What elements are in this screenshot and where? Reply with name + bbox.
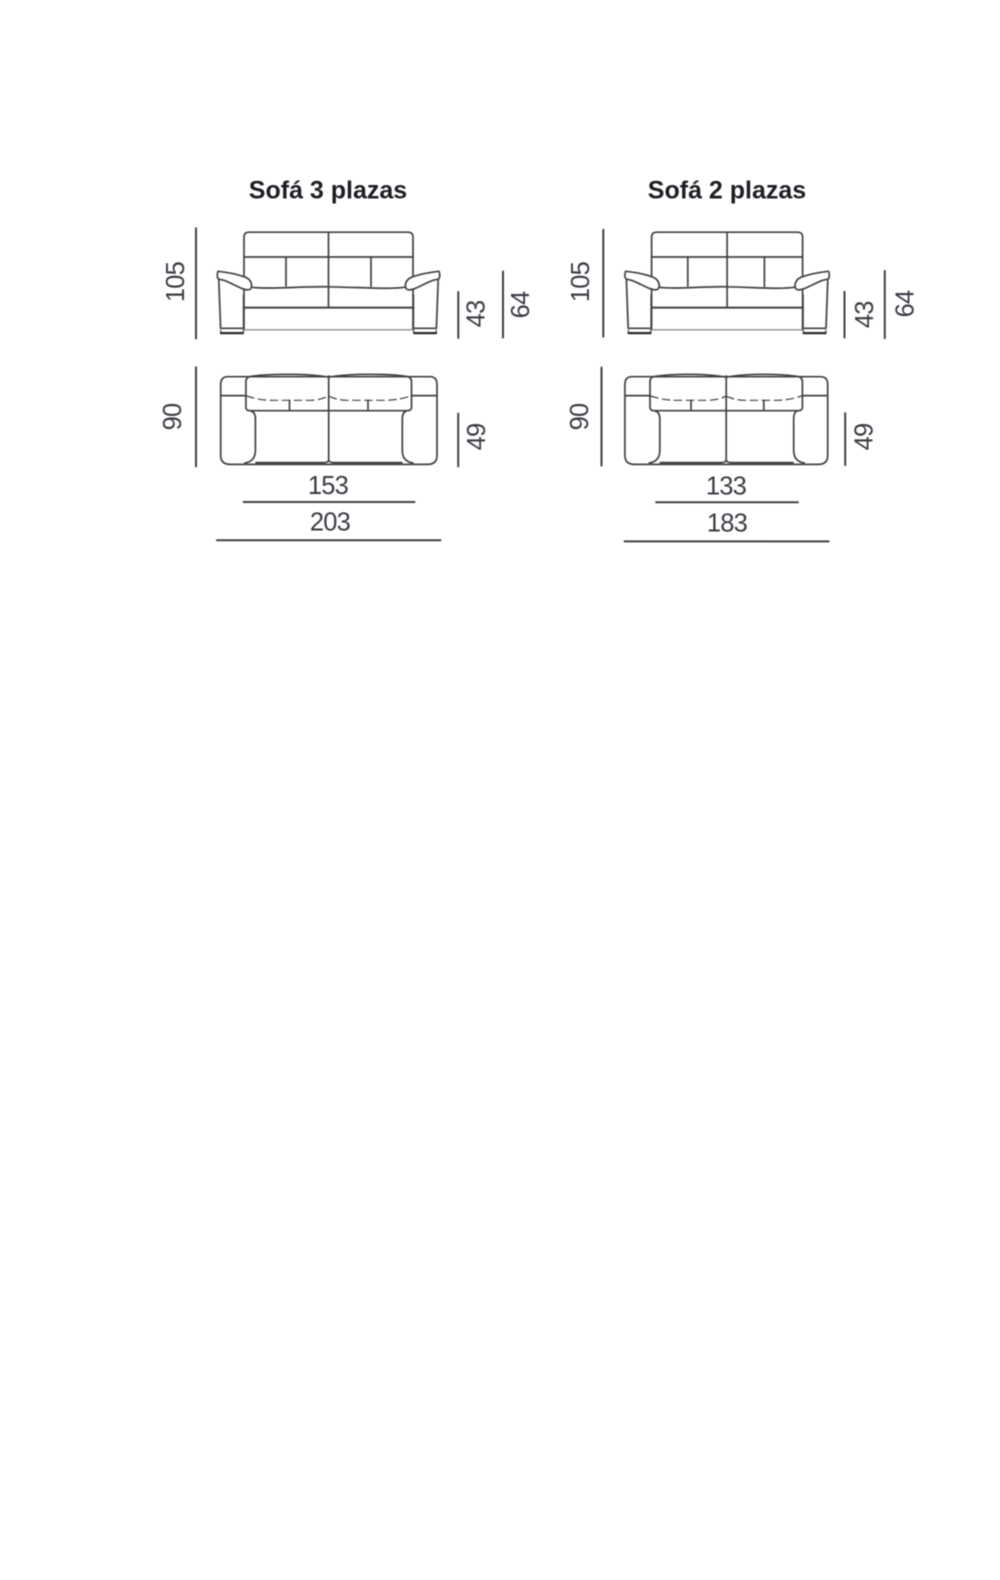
sofa3 top cushion stitch left xyxy=(247,396,329,400)
dimension line 64 (sofa2) xyxy=(884,271,886,338)
sofa2 front left arm body xyxy=(626,280,651,328)
svg-text:90: 90 xyxy=(566,403,594,430)
sofa3 front left arm pad xyxy=(217,271,251,290)
sofa3 top band seam left xyxy=(289,400,291,410)
sofa2 front center divider xyxy=(726,232,728,307)
sofa2 top right arm inner edge xyxy=(794,411,805,463)
svg-text:90: 90 xyxy=(159,403,187,430)
svg-text:49: 49 xyxy=(851,424,879,451)
sofa3 top cushion stitch right xyxy=(329,396,411,400)
sofa3 front left vertical seam xyxy=(285,257,287,286)
sofa2 front right foot xyxy=(803,330,826,333)
sofa3 top left arm top edge xyxy=(222,395,246,397)
sofa2 top band seam right xyxy=(763,400,765,410)
sofa2 top cushion stitch left xyxy=(651,396,726,400)
sofa3 front seat top wavy line xyxy=(252,287,405,289)
dimension line 49 (sofa3) xyxy=(457,414,459,467)
sofa2 top center divider xyxy=(725,376,727,461)
sofa3 front left arm body xyxy=(219,280,244,328)
sofa2 front right arm pad xyxy=(795,271,829,290)
dimension line 49 (sofa2) xyxy=(844,413,846,465)
sofa2 front left arm pad xyxy=(625,271,659,290)
sofa2 front left foot xyxy=(628,330,651,333)
svg-text:105: 105 xyxy=(162,261,190,302)
dimension line 90 (sofa2) xyxy=(601,368,603,466)
sofa2 front base line xyxy=(652,329,802,331)
sofa3 top back cushion block xyxy=(246,374,412,410)
sofa3 top center divider xyxy=(328,376,330,461)
sofa2 top outer outline xyxy=(625,377,828,465)
sofa3 front right arm body xyxy=(413,280,438,328)
svg-text:64: 64 xyxy=(892,290,920,317)
sofa3 front right foot xyxy=(414,330,437,333)
svg-text:43: 43 xyxy=(463,300,491,327)
sofa3 front base line xyxy=(245,329,413,331)
sofa2 top band seam left xyxy=(690,400,692,410)
sofa2 top left arm inner edge xyxy=(649,411,660,463)
sofa2 top seat bottom left xyxy=(660,461,725,463)
svg-text:105: 105 xyxy=(567,261,595,302)
sofa2 front back seam xyxy=(652,256,803,258)
sofa2 top right arm top edge xyxy=(802,395,827,397)
sofa3 front right vertical seam xyxy=(370,257,372,286)
sofa2 front left vertical seam xyxy=(687,257,689,286)
sofa3 top outer outline xyxy=(221,377,437,465)
svg-text:64: 64 xyxy=(507,291,535,318)
sofa3 front right arm pad xyxy=(405,271,439,290)
sofa2 front seat top wavy line xyxy=(660,287,795,289)
svg-text:Sofá 3 plazas: Sofá 3 plazas xyxy=(249,177,407,205)
sofa3 top seat bottom left xyxy=(256,461,328,463)
sofa3 top left arm inner edge xyxy=(245,411,256,463)
sofa2 top cushion stitch right xyxy=(727,396,802,400)
sofa2 front right arm body xyxy=(803,280,828,328)
sofa3 front left foot xyxy=(221,330,244,333)
sofa3 top band seam right xyxy=(367,400,369,410)
dimension line 105 (sofa2) xyxy=(602,230,604,337)
dimension line 43 (sofa3) xyxy=(457,292,459,338)
dimension line 203 (sofa3) xyxy=(217,539,441,541)
svg-text:153: 153 xyxy=(308,472,349,500)
sofa3 front back seam xyxy=(244,256,413,258)
svg-text:Sofá 2 plazas: Sofá 2 plazas xyxy=(648,177,806,205)
sofa2 top seat bottom right xyxy=(727,461,793,463)
dimension line 133 (sofa2) xyxy=(656,501,798,503)
sofa3 top right arm inner edge xyxy=(402,411,413,463)
sofa2 front right vertical seam xyxy=(763,257,765,286)
svg-text:183: 183 xyxy=(707,510,748,538)
sofa3 front seat bottom line xyxy=(244,307,413,309)
dimension line 153 (sofa3) xyxy=(244,501,415,503)
sofa2 front seat bottom line xyxy=(652,307,803,309)
svg-text:203: 203 xyxy=(310,509,351,537)
dimension line 183 (sofa2) xyxy=(625,540,829,542)
svg-text:49: 49 xyxy=(463,424,491,451)
sofa3 top seat bottom right xyxy=(329,461,401,463)
sofa3 front body outline xyxy=(244,232,413,330)
sofa3 front center divider xyxy=(328,232,330,307)
dimension line 64 (sofa3) xyxy=(502,272,504,338)
svg-text:133: 133 xyxy=(706,473,747,501)
dimension line 43 (sofa2) xyxy=(844,292,846,338)
sofa2 front body outline xyxy=(652,232,803,330)
sofa2 top left arm top edge xyxy=(626,395,650,397)
dimension line 90 (sofa3) xyxy=(195,367,197,466)
sofa3 top right arm top edge xyxy=(412,395,437,397)
dimension line 105 (sofa3) xyxy=(195,228,197,338)
svg-text:43: 43 xyxy=(851,301,879,328)
sofa2 top back cushion block xyxy=(650,374,802,410)
